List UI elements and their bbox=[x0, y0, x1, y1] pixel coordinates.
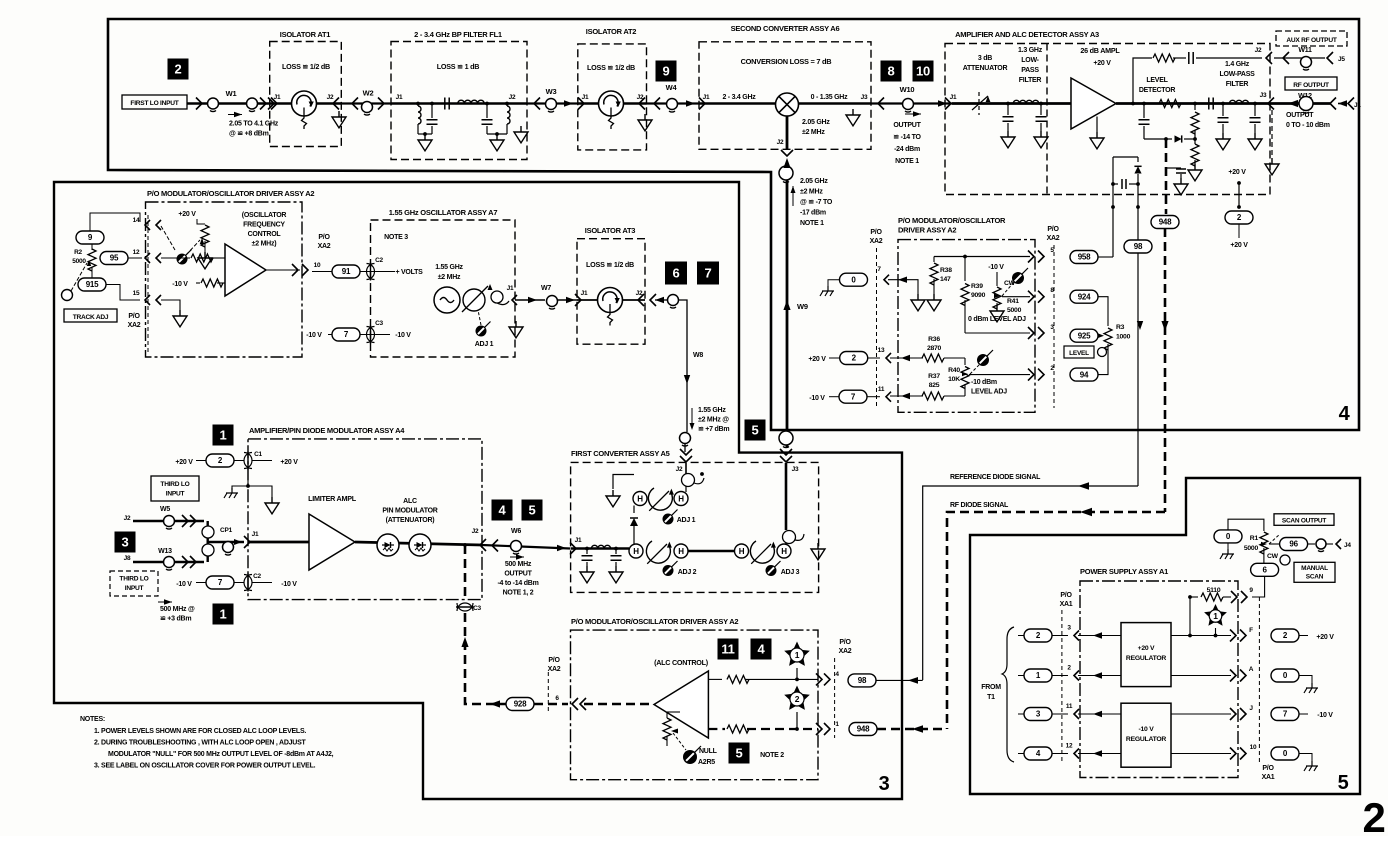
waypoint 2 black box bbox=[168, 59, 189, 80]
oval connector 91 bbox=[332, 265, 360, 278]
svg-text:CP1: CP1 bbox=[220, 527, 233, 534]
limiter amplifier triangle bbox=[309, 514, 355, 570]
svg-text:PASS: PASS bbox=[1021, 67, 1039, 74]
svg-text:J2: J2 bbox=[636, 290, 643, 297]
svg-text:+20 V: +20 V bbox=[1230, 242, 1248, 249]
A5 output ground bbox=[811, 543, 825, 560]
svg-text:95: 95 bbox=[110, 254, 119, 263]
FL1 series inductor bbox=[458, 100, 484, 103]
pin 15 ground wire bbox=[161, 300, 180, 310]
waypoint 1 black box top bbox=[213, 425, 234, 446]
svg-text:XA2: XA2 bbox=[318, 243, 331, 250]
circulator AT3 bbox=[598, 288, 623, 313]
A5 tuned circuit 3 H right bbox=[777, 544, 791, 558]
svg-text:2.05 GHz: 2.05 GHz bbox=[800, 178, 828, 185]
star 2 symbol bbox=[784, 686, 810, 710]
wire 98 to vertical bbox=[876, 679, 923, 681]
isolator AT1 dashed box bbox=[270, 42, 342, 147]
svg-text:THIRD LO: THIRD LO bbox=[119, 576, 148, 583]
svg-text:AMPLIFIER AND ALC DETECTOR ASS: AMPLIFIER AND ALC DETECTOR ASSY A3 bbox=[955, 30, 1099, 39]
LEVEL label box bbox=[1064, 346, 1094, 358]
svg-text:26 dB AMPL: 26 dB AMPL bbox=[1080, 46, 1120, 55]
wire W5 bbox=[133, 520, 204, 522]
svg-text:0 - 1.35 GHz: 0 - 1.35 GHz bbox=[811, 94, 848, 101]
svg-text:2.05 TO 4.1 GHz: 2.05 TO 4.1 GHz bbox=[229, 121, 279, 128]
feedback line up from amp output bbox=[1131, 102, 1135, 106]
svg-text:H: H bbox=[781, 547, 787, 556]
FL1 signal line bbox=[391, 102, 527, 105]
ground below pot bbox=[198, 252, 212, 269]
A5 tuned circuit 1 rotor bbox=[648, 488, 672, 510]
svg-text:2: 2 bbox=[1362, 794, 1385, 836]
wire 924 to R3 bbox=[1098, 297, 1108, 326]
coax connector W12 bbox=[1299, 97, 1313, 111]
wire J2 loop to tuned circuit bbox=[685, 486, 687, 492]
scan output label box bbox=[1274, 514, 1334, 526]
coax connector W13 bbox=[164, 557, 175, 568]
LPF2 ground right bbox=[1248, 133, 1262, 150]
coax connector W9 bottom bbox=[779, 431, 793, 445]
svg-text:INPUT: INPUT bbox=[125, 585, 144, 592]
svg-text:94: 94 bbox=[1080, 370, 1089, 379]
svg-text:J4: J4 bbox=[1344, 542, 1351, 549]
svg-text:1.55 GHz OSCILLATOR ASSY A7: 1.55 GHz OSCILLATOR ASSY A7 bbox=[389, 208, 498, 217]
A1 input row oval 3 bbox=[1024, 708, 1052, 721]
svg-text:≌ -14 TO: ≌ -14 TO bbox=[893, 134, 921, 141]
pin diode modulator 2 bbox=[409, 534, 431, 556]
svg-text:LOW-: LOW- bbox=[1021, 57, 1039, 64]
FL1 left shunt ground bbox=[418, 133, 432, 135]
svg-text:+20 V: +20 V bbox=[1138, 645, 1155, 652]
coax connector W10 bbox=[903, 99, 914, 110]
LPF2 series inductor bbox=[1229, 100, 1248, 103]
coax connector on W1 left bbox=[208, 98, 219, 109]
pot R1 scan bbox=[1260, 532, 1268, 554]
svg-text:P/O MODULATOR/OSCILLATOR DRIVE: P/O MODULATOR/OSCILLATOR DRIVER ASSY A2 bbox=[571, 617, 738, 626]
svg-text:LEVEL ADJ: LEVEL ADJ bbox=[971, 389, 1007, 396]
coax connector before J1 bbox=[223, 542, 234, 553]
sheet outline service sheet 5 region bbox=[970, 478, 1360, 794]
svg-text:925: 925 bbox=[1078, 331, 1091, 340]
svg-text:P/O MODULATOR/OSCILLATOR: P/O MODULATOR/OSCILLATOR bbox=[898, 216, 1006, 225]
svg-text:2 - 3.4 GHz: 2 - 3.4 GHz bbox=[722, 94, 756, 101]
svg-text:4: 4 bbox=[499, 503, 507, 518]
oval connector 94 bbox=[1070, 368, 1098, 381]
feedback resistor bbox=[1153, 54, 1175, 62]
svg-text:J2: J2 bbox=[472, 528, 479, 535]
wire W3 bbox=[527, 102, 578, 104]
coax connector W11 bbox=[1301, 57, 1312, 68]
A1 dash-dot box bbox=[1080, 581, 1238, 778]
LPF2 shunt capacitor right bbox=[1253, 102, 1257, 106]
heavy dash to op amp apex bbox=[584, 703, 654, 706]
svg-text:DRIVER ASSY A2: DRIVER ASSY A2 bbox=[898, 226, 956, 235]
svg-text:P/O: P/O bbox=[1047, 226, 1059, 233]
wire W8 from AT3 J2 bbox=[650, 294, 656, 306]
waypoint 6 black box bbox=[665, 262, 687, 285]
svg-text:AUX RF OUTPUT: AUX RF OUTPUT bbox=[1286, 37, 1336, 44]
svg-text:±2 MHz): ±2 MHz) bbox=[252, 241, 277, 248]
svg-text:W10: W10 bbox=[900, 85, 915, 94]
svg-text:11: 11 bbox=[878, 386, 885, 393]
svg-text:5: 5 bbox=[736, 746, 743, 761]
FL1 shunt capacitor left bbox=[431, 104, 433, 119]
RF OUTPUT label box bbox=[1285, 77, 1337, 90]
svg-text:5000: 5000 bbox=[1244, 545, 1259, 552]
output J1 pin bbox=[1338, 100, 1347, 106]
wire 9 oval down to R2 bbox=[90, 243, 92, 245]
svg-text:POWER SUPPLY ASSY A1: POWER SUPPLY ASSY A1 bbox=[1080, 567, 1168, 576]
svg-text:NOTE 2: NOTE 2 bbox=[760, 752, 784, 759]
svg-text:+20 V: +20 V bbox=[1093, 60, 1111, 67]
A1 input row oval 1 bbox=[1024, 669, 1052, 682]
svg-text:CW: CW bbox=[1267, 553, 1279, 560]
heavy dashed ALC line from A4 output bbox=[463, 543, 467, 547]
svg-text:5000: 5000 bbox=[72, 258, 86, 265]
FL1 shunt capacitor right bbox=[486, 104, 488, 119]
svg-text:5110: 5110 bbox=[1207, 587, 1221, 594]
svg-text:OUTPUT: OUTPUT bbox=[893, 122, 921, 129]
junction coupling circles CP1 bbox=[202, 526, 214, 538]
front panel adj symbol A2 bbox=[185, 250, 191, 256]
svg-text:2: 2 bbox=[795, 694, 800, 704]
wire 958 oval to net bbox=[1112, 256, 1114, 258]
XA1 dashed connector right bbox=[1258, 597, 1260, 762]
svg-text:J2: J2 bbox=[637, 94, 644, 101]
svg-text:2: 2 bbox=[175, 62, 182, 77]
svg-text:-24 dBm: -24 dBm bbox=[894, 146, 920, 153]
isolator AT2 J1 chevron bbox=[578, 98, 584, 110]
svg-text:-10 V: -10 V bbox=[172, 281, 188, 288]
svg-text:ATTENUATOR: ATTENUATOR bbox=[963, 65, 1008, 72]
wire R39 to pin 3 bbox=[965, 332, 1030, 334]
oval connector 948 ALC bbox=[849, 723, 877, 736]
ADJ 1 control A7 bbox=[484, 322, 490, 328]
svg-text:LOSS ≌ 1 dB: LOSS ≌ 1 dB bbox=[437, 62, 479, 71]
svg-text:DETECTOR: DETECTOR bbox=[1139, 87, 1176, 94]
ALC op amp triangle bbox=[654, 671, 708, 738]
coax connector W5 bbox=[164, 516, 175, 527]
input brace bbox=[1002, 627, 1014, 762]
A6 ground under J3 bbox=[846, 109, 860, 126]
svg-text:11: 11 bbox=[1066, 703, 1073, 710]
svg-text:(ALC CONTROL): (ALC CONTROL) bbox=[654, 658, 709, 667]
FL1 output ground bbox=[514, 126, 528, 143]
svg-text:J2: J2 bbox=[1255, 47, 1262, 54]
svg-text:1.3 GHz: 1.3 GHz bbox=[1018, 47, 1043, 54]
svg-text:500 MHz @: 500 MHz @ bbox=[160, 606, 195, 613]
svg-text:±2 MHz @: ±2 MHz @ bbox=[698, 417, 729, 424]
wire W12 main output bbox=[1270, 102, 1330, 105]
svg-text:P/O: P/O bbox=[870, 229, 882, 236]
svg-text:LOSS ≌ 1/2 dB: LOSS ≌ 1/2 dB bbox=[282, 62, 330, 71]
heavy dashed 948 to vertical bbox=[877, 728, 947, 731]
svg-text:825: 825 bbox=[929, 382, 940, 389]
A1 input row 4 wire to regulator bbox=[1078, 753, 1121, 755]
svg-text:J8: J8 bbox=[124, 555, 131, 562]
waypoint 4 black box ALC bbox=[751, 639, 772, 660]
svg-text:P/O: P/O bbox=[318, 234, 330, 241]
isolator AT1 J1 chevron bbox=[271, 98, 277, 110]
coax connector scan J4 bbox=[1316, 539, 1326, 549]
W8 level annotation bbox=[691, 408, 693, 427]
svg-text:1.4 GHz: 1.4 GHz bbox=[1225, 61, 1250, 68]
svg-text:J1: J1 bbox=[950, 94, 957, 101]
wire W9 vertical LO feed bbox=[786, 180, 789, 448]
svg-text:924: 924 bbox=[1078, 292, 1091, 301]
svg-text:NOTE 1: NOTE 1 bbox=[895, 158, 919, 165]
svg-text:915: 915 bbox=[86, 280, 99, 289]
svg-text:-10 V: -10 V bbox=[281, 581, 297, 588]
svg-text:14: 14 bbox=[133, 217, 140, 224]
resistor R38 bbox=[933, 257, 935, 263]
svg-text:J5: J5 bbox=[1338, 56, 1345, 63]
waypoint 1 black box bottom bbox=[213, 604, 234, 625]
coax connector on W1 right bbox=[247, 98, 258, 109]
FIRST LO INPUT label box bbox=[122, 95, 187, 109]
svg-text:P/O MODULATOR/OSCILLATOR DRIVE: P/O MODULATOR/OSCILLATOR DRIVER ASSY A2 bbox=[147, 189, 314, 198]
A5 tuned circuit 1 H left bbox=[633, 492, 647, 506]
A5 J2 coupling loop bbox=[685, 463, 687, 474]
svg-text:AMPLIFIER/PIN DIODE MODULATOR: AMPLIFIER/PIN DIODE MODULATOR ASSY A4 bbox=[249, 426, 405, 435]
svg-text:J1: J1 bbox=[582, 94, 589, 101]
svg-text:-10 V: -10 V bbox=[809, 395, 825, 402]
oval connector gnd 10 bbox=[1271, 747, 1299, 760]
svg-text:+20 V: +20 V bbox=[178, 211, 196, 218]
svg-text:J2: J2 bbox=[327, 94, 334, 101]
svg-text:8: 8 bbox=[888, 64, 895, 79]
svg-text:ALC: ALC bbox=[403, 498, 417, 505]
coupling loop to J1 bbox=[491, 291, 503, 303]
svg-text:C2: C2 bbox=[253, 573, 261, 580]
svg-text:ADJ 1: ADJ 1 bbox=[475, 341, 494, 348]
A5 input ground top bbox=[606, 490, 620, 507]
wire W13 bbox=[133, 561, 204, 563]
+20V regulator box bbox=[1121, 623, 1171, 687]
wire R40 wiper to pin 2 bbox=[969, 374, 1030, 376]
svg-text:XA2: XA2 bbox=[128, 322, 141, 329]
svg-text:948: 948 bbox=[1159, 218, 1172, 227]
svg-text:W9: W9 bbox=[797, 302, 808, 311]
svg-text:J3: J3 bbox=[792, 466, 799, 473]
svg-text:FIRST CONVERTER ASSY A5: FIRST CONVERTER ASSY A5 bbox=[571, 449, 670, 458]
svg-text:W4: W4 bbox=[666, 83, 678, 92]
null adjust symbol bbox=[694, 746, 701, 753]
oval connector 924 bbox=[1070, 290, 1098, 303]
A5 ADJ 1 bbox=[671, 510, 677, 516]
AUX RF OUTPUT dashed label box bbox=[1276, 31, 1347, 46]
scan 0 ground bbox=[1227, 543, 1229, 551]
A5 tuned circuit 2 rotor bbox=[646, 541, 670, 563]
R41 adjust symbol bbox=[1022, 268, 1028, 274]
svg-text:+20 V: +20 V bbox=[1228, 169, 1246, 176]
level detector resistor to ground bbox=[1194, 139, 1196, 144]
svg-text:1: 1 bbox=[220, 428, 227, 443]
wire to C2 feedthrough bbox=[312, 271, 332, 273]
RF diode signal wire heavy dashed bbox=[947, 512, 1165, 729]
svg-text:91: 91 bbox=[342, 267, 351, 276]
svg-text:W13: W13 bbox=[158, 548, 172, 555]
svg-text:H: H bbox=[678, 547, 684, 556]
svg-text:LOSS ≌ 1/2 dB: LOSS ≌ 1/2 dB bbox=[587, 63, 635, 72]
waypoint 9 black box bbox=[656, 61, 677, 82]
isolator AT2 dashed box bbox=[578, 44, 647, 150]
mixer bbox=[776, 93, 799, 116]
A5 diode bbox=[633, 506, 635, 514]
svg-text:T1: T1 bbox=[987, 694, 995, 701]
oval connector 98 ALC bbox=[848, 674, 876, 687]
svg-text:TRACK ADJ: TRACK ADJ bbox=[73, 314, 109, 321]
svg-text:2.05 GHz: 2.05 GHz bbox=[802, 119, 830, 126]
svg-text:R38: R38 bbox=[940, 267, 952, 274]
svg-text:NULL: NULL bbox=[699, 748, 718, 755]
svg-text:10: 10 bbox=[1250, 744, 1257, 751]
A1 input row oval 4 bbox=[1024, 747, 1052, 760]
svg-text:XA2: XA2 bbox=[839, 648, 852, 655]
svg-text:XA2: XA2 bbox=[870, 238, 883, 245]
svg-text:1: 1 bbox=[220, 607, 227, 622]
isolator AT2 J2 chevron bbox=[639, 98, 645, 110]
A5 tuned circuit 2 H right bbox=[674, 544, 688, 558]
track adj circle bbox=[62, 290, 73, 301]
svg-text:-10 V: -10 V bbox=[1317, 712, 1333, 719]
isolator AT1 ground bbox=[332, 111, 346, 128]
aux J5 pin bbox=[1327, 52, 1333, 64]
svg-text:928: 928 bbox=[514, 700, 527, 709]
THIRD LO INPUT dashed box bbox=[110, 571, 158, 596]
waypoint 5 black box note2 bbox=[729, 743, 750, 764]
LPF1 shunt capacitor right bbox=[1039, 102, 1043, 106]
svg-text:10: 10 bbox=[314, 262, 321, 269]
svg-text:J3: J3 bbox=[861, 94, 868, 101]
svg-text:2870: 2870 bbox=[927, 345, 942, 352]
W1 signal annotation bbox=[234, 112, 242, 118]
A5 shunt cap left bbox=[585, 547, 589, 551]
svg-text:H: H bbox=[637, 494, 643, 503]
A6 signal line from mixer bbox=[799, 102, 872, 105]
svg-text:P/O: P/O bbox=[839, 639, 851, 646]
reference diode subcircuit top rail bbox=[1113, 156, 1138, 158]
+20V regulator ground row A bbox=[1171, 675, 1231, 677]
A5 ADJ 2 bbox=[671, 561, 677, 567]
oval connector 95 bbox=[100, 252, 128, 265]
oval connector -10 out bbox=[1271, 708, 1299, 721]
svg-text:A: A bbox=[1249, 666, 1254, 673]
A6 signal line to mixer bbox=[699, 102, 776, 105]
svg-text:FROM: FROM bbox=[981, 684, 1001, 691]
svg-text:13: 13 bbox=[878, 347, 885, 354]
svg-text:XA1: XA1 bbox=[1060, 601, 1073, 608]
feedthrough capacitor C2A4 bbox=[244, 575, 252, 591]
svg-text:P/O: P/O bbox=[1060, 592, 1072, 599]
svg-text:147: 147 bbox=[940, 276, 951, 283]
svg-text:+20 V: +20 V bbox=[175, 459, 193, 466]
wire W7 bbox=[515, 299, 545, 301]
svg-text:3 dB: 3 dB bbox=[978, 55, 992, 62]
svg-text:J2: J2 bbox=[777, 139, 784, 146]
svg-text:1: 1 bbox=[1213, 611, 1218, 621]
svg-text:5: 5 bbox=[1338, 772, 1349, 794]
svg-text:R36: R36 bbox=[928, 336, 940, 343]
isolator AT1 signal line bbox=[270, 102, 341, 105]
svg-text:7: 7 bbox=[705, 266, 712, 281]
svg-text:J1: J1 bbox=[1354, 102, 1361, 109]
svg-text:C3: C3 bbox=[375, 320, 383, 327]
wire pin14 to oval 9 bbox=[90, 213, 140, 231]
coax connector W2 bbox=[362, 102, 373, 113]
svg-text:3: 3 bbox=[122, 535, 129, 550]
svg-text:1000: 1000 bbox=[1116, 334, 1131, 341]
svg-text:+ VOLTS: + VOLTS bbox=[395, 269, 423, 276]
-10V regulator output wire J bbox=[1171, 713, 1231, 715]
-10V regulator ground row 10 bbox=[1171, 753, 1231, 755]
op amp output wire to pin 10 bbox=[266, 269, 300, 271]
wire 96 to J4 bbox=[1308, 543, 1315, 545]
op amp input wires bbox=[161, 257, 190, 259]
amplifier U1 triangle bbox=[1071, 78, 1116, 129]
svg-text:10: 10 bbox=[916, 64, 930, 79]
LPF1 ground right bbox=[1034, 131, 1048, 148]
svg-text:96: 96 bbox=[1289, 540, 1298, 549]
svg-text:R39: R39 bbox=[971, 283, 983, 290]
level detector shunt resistor to line bbox=[1193, 102, 1197, 106]
svg-text:9: 9 bbox=[663, 64, 670, 79]
reference diode signal wire bbox=[923, 486, 1138, 680]
FL1 right shunt ground bbox=[487, 133, 507, 135]
feedthrough capacitor C2 bbox=[367, 264, 375, 280]
manual scan label box bbox=[1294, 562, 1335, 582]
A4 dash-dot box bbox=[248, 439, 482, 600]
FL1 series capacitor bbox=[445, 98, 449, 110]
isolator AT2 signal line bbox=[578, 102, 647, 105]
A5 dashed box bbox=[571, 462, 819, 592]
A5 mid line bbox=[688, 550, 734, 552]
feedthrough capacitor C1 bbox=[244, 453, 252, 469]
wire pin11 resistor R37 bbox=[890, 395, 923, 397]
svg-text:(ATTENUATOR): (ATTENUATOR) bbox=[386, 517, 435, 524]
ground below W12 line bbox=[1271, 110, 1273, 158]
svg-text:1.55 GHz: 1.55 GHz bbox=[435, 264, 463, 271]
XA2 dashed connector right of ALC box bbox=[834, 658, 836, 738]
null pot R5 bbox=[685, 715, 687, 738]
500 MHz annotation bbox=[164, 599, 172, 605]
svg-text:W5: W5 bbox=[160, 506, 170, 513]
oval connector 96 bbox=[1280, 538, 1308, 551]
wire pin13 resistor R36 bbox=[890, 357, 923, 359]
LPF2 shunt capacitor left bbox=[1221, 102, 1225, 106]
wire W6 bbox=[482, 545, 570, 549]
waypoint 4 black box near W6 bbox=[492, 500, 513, 521]
star 1 power supply bbox=[1204, 604, 1227, 626]
svg-text:W11: W11 bbox=[1298, 47, 1312, 54]
svg-text:≌ +7 dBm: ≌ +7 dBm bbox=[698, 426, 729, 433]
svg-text:-10 dBm: -10 dBm bbox=[971, 379, 997, 386]
svg-text:-4 to -14 dBm: -4 to -14 dBm bbox=[497, 580, 538, 587]
svg-text:W1: W1 bbox=[226, 89, 237, 98]
svg-text:11: 11 bbox=[721, 642, 734, 657]
A2 left dash-dot box bbox=[146, 202, 303, 357]
oscillator circle bbox=[434, 287, 460, 313]
svg-text:@ ≌ +8 dBm: @ ≌ +8 dBm bbox=[229, 131, 269, 138]
svg-text:5000: 5000 bbox=[1007, 307, 1022, 314]
coax connector W7 bbox=[547, 296, 558, 307]
A1 input row 1 wire to regulator bbox=[1078, 675, 1121, 677]
svg-text:PIN MODULATOR: PIN MODULATOR bbox=[382, 508, 437, 515]
A3 attenuator section divider bbox=[1046, 44, 1048, 195]
coax connector W6 bbox=[511, 541, 522, 552]
circulator AT1 bbox=[292, 91, 317, 116]
svg-text:XA2: XA2 bbox=[1047, 235, 1060, 242]
